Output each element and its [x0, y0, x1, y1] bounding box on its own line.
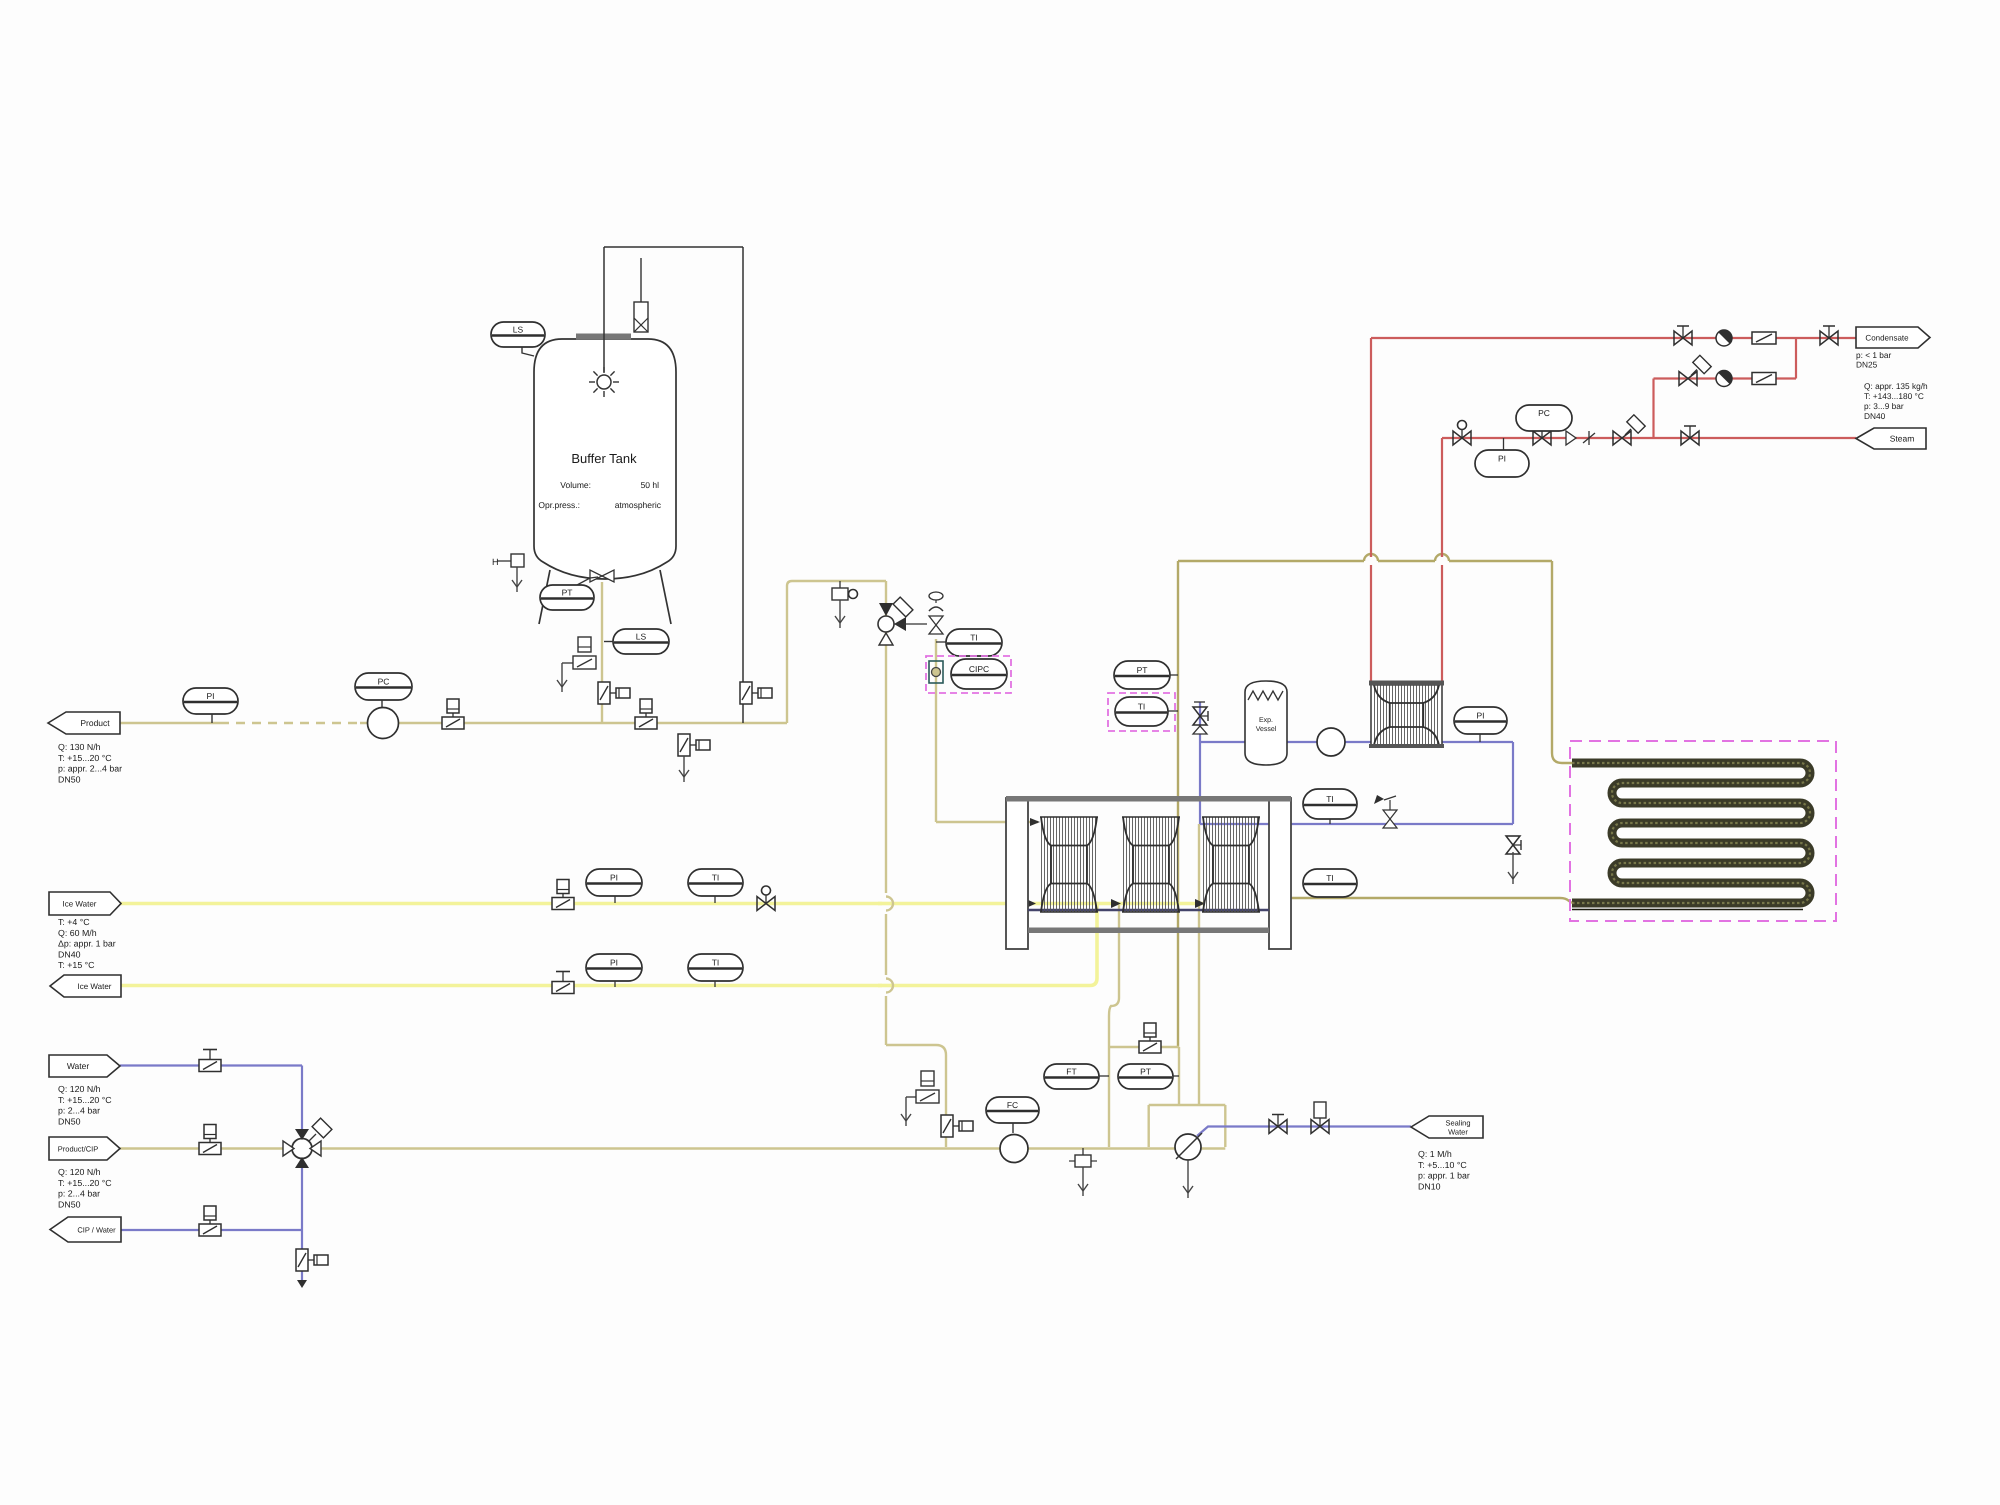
svg-text:50 hl: 50 hl [641, 480, 660, 490]
svg-text:T: +15...20 °C: T: +15...20 °C [58, 1178, 112, 1188]
svg-text:DN50: DN50 [58, 1116, 81, 1126]
svg-text:DN40: DN40 [1864, 411, 1886, 421]
svg-text:DN50: DN50 [58, 774, 81, 784]
svg-text:PI: PI [610, 873, 618, 883]
svg-text:PC: PC [378, 677, 390, 687]
svg-text:p: appr. 1 bar: p: appr. 1 bar [1418, 1171, 1470, 1181]
svg-text:T: +15...20 °C: T: +15...20 °C [58, 1095, 112, 1105]
svg-text:Q: 1 M/h: Q: 1 M/h [1418, 1149, 1452, 1159]
svg-text:PT: PT [562, 588, 573, 598]
svg-text:Ice Water: Ice Water [78, 982, 112, 991]
svg-text:PC: PC [1538, 408, 1550, 418]
svg-text:TI: TI [1138, 702, 1146, 712]
svg-text:DN25: DN25 [1856, 360, 1878, 370]
svg-text:TI: TI [970, 633, 978, 643]
svg-text:Q: 60 M/h: Q: 60 M/h [58, 928, 97, 938]
svg-text:PI: PI [610, 958, 618, 968]
svg-text:Q: 130 N/h: Q: 130 N/h [58, 742, 101, 752]
svg-text:LS: LS [513, 325, 524, 335]
svg-text:Product/CIP: Product/CIP [58, 1145, 98, 1154]
svg-text:p: appr. 2...4 bar: p: appr. 2...4 bar [58, 764, 122, 774]
svg-text:PT: PT [1137, 665, 1148, 675]
svg-text:FC: FC [1007, 1100, 1018, 1110]
svg-text:DN40: DN40 [58, 949, 81, 959]
svg-text:PI: PI [1476, 711, 1484, 721]
svg-text:CIPC: CIPC [969, 664, 989, 674]
svg-text:p: < 1 bar: p: < 1 bar [1856, 350, 1892, 360]
svg-text:atmospheric: atmospheric [615, 500, 662, 510]
svg-text:Vessel: Vessel [1256, 725, 1277, 733]
svg-text:T: +15...20 °C: T: +15...20 °C [58, 753, 112, 763]
svg-text:Opr.press.:: Opr.press.: [538, 500, 580, 510]
svg-text:Condensate: Condensate [1865, 334, 1909, 343]
svg-text:Product: Product [80, 718, 110, 728]
svg-text:Exp.: Exp. [1259, 717, 1273, 724]
svg-text:T: +143...180 °C: T: +143...180 °C [1864, 391, 1924, 401]
svg-text:TI: TI [1326, 794, 1334, 804]
svg-text:PI: PI [206, 691, 214, 701]
svg-text:DN50: DN50 [58, 1199, 81, 1209]
svg-text:Volume:: Volume: [560, 480, 591, 490]
svg-text:T: +5...10 °C: T: +5...10 °C [1418, 1160, 1467, 1170]
svg-text:T: +4 °C: T: +4 °C [58, 917, 90, 927]
svg-text:TI: TI [1326, 873, 1334, 883]
svg-text:PI: PI [1498, 454, 1506, 464]
svg-text:T: +15 °C: T: +15 °C [58, 960, 95, 970]
svg-text:p: 3...9 bar: p: 3...9 bar [1864, 401, 1904, 411]
svg-text:TI: TI [712, 873, 720, 883]
svg-text:Sealing: Sealing [1445, 1119, 1470, 1128]
svg-text:DN10: DN10 [1418, 1181, 1441, 1191]
svg-text:Δp: appr. 1 bar: Δp: appr. 1 bar [58, 939, 116, 949]
svg-text:CIP / Water: CIP / Water [77, 1226, 116, 1235]
svg-text:Steam: Steam [1890, 434, 1915, 444]
svg-text:Water: Water [67, 1061, 90, 1071]
svg-text:PT: PT [1140, 1067, 1151, 1077]
svg-text:Water: Water [1448, 1128, 1468, 1137]
svg-text:TI: TI [712, 958, 720, 968]
svg-text:Buffer Tank: Buffer Tank [571, 451, 637, 466]
svg-text:Q: appr. 135 kg/h: Q: appr. 135 kg/h [1864, 381, 1928, 391]
svg-text:LS: LS [636, 632, 647, 642]
svg-text:FT: FT [1066, 1067, 1076, 1077]
svg-text:H: H [492, 557, 499, 567]
svg-text:p: 2...4 bar: p: 2...4 bar [58, 1189, 100, 1199]
svg-text:p: 2...4 bar: p: 2...4 bar [58, 1106, 100, 1116]
svg-text:Q: 120 N/h: Q: 120 N/h [58, 1084, 101, 1094]
svg-text:Q: 120 N/h: Q: 120 N/h [58, 1167, 101, 1177]
svg-text:Ice Water: Ice Water [63, 900, 97, 909]
